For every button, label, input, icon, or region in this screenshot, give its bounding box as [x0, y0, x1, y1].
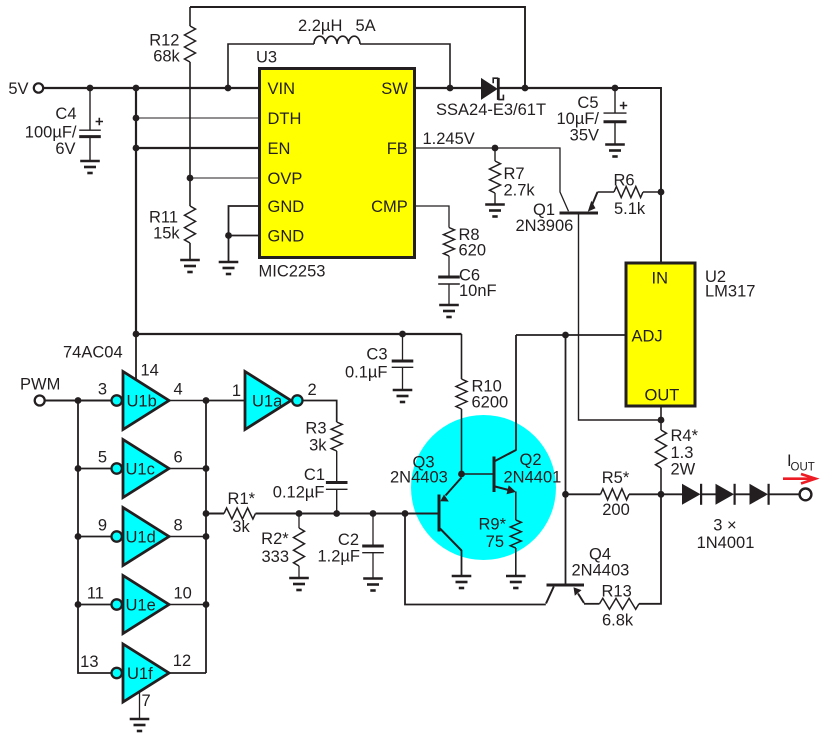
pin DTH: [268, 110, 302, 128]
node R6-IN column junction: [658, 189, 665, 196]
svg-text:R13: R13: [602, 583, 632, 601]
label R9 value: [478, 516, 506, 552]
label R12 value: [149, 32, 180, 66]
wire SW to diode: [415, 87, 482, 89]
svg-text:3 ×: 3 ×: [713, 517, 736, 535]
wire Q2 base: [462, 473, 493, 475]
svg-text:10nF: 10nF: [459, 282, 497, 300]
pin number 12: [173, 652, 191, 670]
svg-text:R7: R7: [504, 165, 525, 183]
svg-text:LM317: LM317: [705, 283, 755, 301]
capacitor C4: [79, 88, 103, 161]
wire D3-D4: [735, 493, 751, 495]
node R4-R5-diode junction: [658, 491, 665, 498]
svg-text:C1: C1: [304, 466, 325, 484]
ground below U3 GND pins: [219, 262, 239, 274]
wire U1e output: [169, 604, 206, 606]
wire OUT pin: [660, 406, 662, 420]
svg-text:2.7k: 2.7k: [504, 182, 536, 200]
inverter U1c: [112, 440, 170, 498]
pin VIN: [268, 80, 296, 98]
wire inverter output column: [205, 401, 207, 674]
inverter U1f: [112, 644, 170, 702]
capacitor C2: [362, 514, 384, 579]
svg-text:5A: 5A: [356, 17, 376, 35]
node DTH junction: [133, 115, 140, 122]
label C3 value: [345, 346, 388, 382]
resistor R5: [601, 489, 630, 500]
label C2 value: [317, 531, 360, 566]
inductor L1 2.2uH: [314, 36, 360, 44]
transistor Q2 2N4401: [494, 450, 516, 494]
label R10 value: [472, 378, 509, 412]
label C1 value: [273, 466, 325, 502]
node ADJ junction: [562, 332, 569, 339]
node PWM junction: [75, 397, 82, 404]
svg-text:6: 6: [174, 449, 183, 467]
wire Q2 collector: [515, 335, 517, 451]
wire 5V down-column to logic rail: [135, 88, 137, 334]
node output column R1 junction: [203, 510, 210, 517]
svg-text:2: 2: [308, 381, 317, 399]
label U1f: [127, 665, 153, 683]
wire U1a output: [302, 401, 336, 423]
label U2: [705, 268, 755, 301]
diode D1 SSA24-E3/61T: [481, 78, 503, 100]
svg-text:3k: 3k: [309, 437, 327, 455]
node OVP junction: [187, 175, 194, 182]
node ADJ-R5 junction: [562, 491, 569, 498]
wire to output terminal: [768, 493, 800, 495]
label Q4: [572, 546, 630, 580]
ground below R2: [289, 578, 309, 590]
svg-text:PWM: PWM: [20, 376, 60, 394]
wire R13 to output node: [639, 494, 661, 604]
highlight circle around Q2/Q3 pair: [411, 415, 556, 560]
node Q3-base junction: [402, 510, 409, 517]
svg-text:C3: C3: [366, 346, 387, 364]
node rail-pin14 junction: [133, 331, 140, 338]
resistor R7: [490, 148, 501, 205]
wire U1d input stub: [78, 536, 111, 538]
svg-text:200: 200: [602, 501, 630, 519]
capacitor C3: [392, 334, 414, 390]
pin OVP: [268, 170, 303, 188]
svg-text:FB: FB: [387, 140, 408, 158]
wire pin14 power: [135, 334, 137, 380]
node VIN-inductor junction: [225, 85, 232, 92]
node rail-C3 junction: [399, 331, 406, 338]
ground below C5: [605, 145, 625, 157]
svg-text:1.2µF: 1.2µF: [317, 548, 360, 566]
svg-text:6V: 6V: [55, 140, 75, 158]
wire R1 node line: [256, 513, 438, 515]
svg-text:11: 11: [87, 585, 104, 603]
svg-text:74AC04: 74AC04: [63, 344, 123, 362]
label MIC2253: [259, 263, 326, 281]
capacitor C1: [326, 451, 348, 514]
pin FB: [387, 140, 408, 158]
wire DTH pin: [136, 117, 260, 119]
svg-text:15k: 15k: [153, 225, 180, 243]
svg-text:2W: 2W: [671, 461, 696, 479]
node U1d input junction: [75, 533, 82, 540]
svg-text:2N4403: 2N4403: [572, 562, 630, 580]
label R6 value: [614, 172, 646, 219]
svg-text:U3: U3: [256, 49, 277, 67]
svg-text:R4*: R4*: [671, 427, 699, 445]
svg-text:2.2µH: 2.2µH: [298, 17, 342, 35]
node C2 junction: [370, 510, 377, 517]
wire pin7 ground: [139, 692, 141, 719]
resistor R12: [185, 7, 196, 178]
terminal PWM input: [35, 396, 45, 406]
label Q3: [390, 454, 448, 487]
svg-text:10: 10: [174, 585, 192, 603]
node U1e output junction: [203, 601, 210, 608]
svg-text:Q2: Q2: [520, 451, 542, 469]
svg-text:1N4001: 1N4001: [697, 534, 755, 552]
svg-text:SW: SW: [381, 80, 408, 98]
transistor Q3 2N4403: [439, 478, 462, 577]
transistor Q4 2N4403: [546, 585, 584, 604]
label R7 value: [504, 165, 536, 200]
node Q3-emitter R10 junction: [458, 471, 465, 478]
resistor R4: [656, 420, 667, 494]
svg-text:0.12µF: 0.12µF: [273, 484, 325, 502]
svg-text:1.245V: 1.245V: [423, 130, 475, 148]
pin number 8: [174, 517, 183, 535]
diode D4 1N4001: [750, 484, 769, 505]
node U1b output junction: [203, 397, 210, 404]
svg-text:14: 14: [141, 362, 159, 380]
svg-text:U1c: U1c: [126, 461, 155, 479]
pin OUT: [645, 387, 680, 405]
ground below R11: [180, 260, 200, 272]
svg-text:R2*: R2*: [261, 530, 289, 548]
svg-text:5.1k: 5.1k: [614, 200, 646, 218]
svg-text:2N4401: 2N4401: [504, 469, 562, 487]
label C4 value: [25, 105, 77, 158]
wire C5 to U2 IN: [615, 88, 661, 263]
node SW-inductor junction: [447, 85, 454, 92]
node U1d output junction: [203, 533, 210, 540]
wire R5 right: [629, 493, 661, 495]
svg-text:5V: 5V: [8, 80, 28, 98]
wire GND pin 1: [229, 206, 260, 236]
pin number 4: [174, 381, 183, 399]
svg-text:8: 8: [174, 517, 183, 535]
arrow IOUT direction: [783, 474, 816, 484]
node R2 junction: [296, 510, 303, 517]
label C5 value: [556, 94, 599, 145]
svg-text:GND: GND: [268, 228, 305, 246]
node 5V-EN column junction: [133, 85, 140, 92]
svg-text:4: 4: [174, 381, 183, 399]
wire 5V bus: [43, 87, 259, 89]
inverter U1d: [112, 508, 170, 566]
label R13 value: [602, 583, 634, 630]
ground below C4: [80, 161, 100, 173]
wire PWM input: [45, 400, 111, 402]
pin GND2: [268, 228, 305, 246]
capacitor C6: [438, 256, 460, 305]
regulator U2 LM317 body: [626, 263, 695, 406]
pin number 2: [308, 381, 317, 399]
svg-text:EN: EN: [268, 140, 291, 158]
svg-text:C4: C4: [55, 105, 76, 123]
svg-text:1.3: 1.3: [671, 444, 694, 462]
pin number 9: [98, 517, 107, 535]
svg-text:6.8k: 6.8k: [602, 612, 634, 630]
wire OVP pin: [190, 177, 260, 179]
label D1 part number: [436, 101, 546, 119]
wire U1e input stub: [78, 604, 111, 606]
label U1b: [127, 393, 157, 411]
ground below C6: [439, 305, 459, 317]
label R3 value: [305, 420, 327, 455]
pin number 3: [98, 381, 107, 399]
inverter U1e: [112, 576, 170, 634]
svg-text:U1b: U1b: [127, 393, 157, 411]
wire GND pin 2: [229, 236, 260, 263]
wire R1 left: [206, 513, 224, 515]
pin number 1: [232, 382, 241, 400]
pin ADJ: [632, 328, 663, 346]
wire logic power rail: [136, 333, 462, 335]
node 5V-C4 junction: [87, 85, 94, 92]
resistor R10: [456, 334, 467, 474]
label Q1: [516, 201, 574, 235]
svg-text:U1a: U1a: [252, 393, 283, 411]
svg-text:R9*: R9*: [478, 516, 506, 534]
wire inductor right lead: [360, 44, 450, 88]
wire U1f output: [169, 672, 206, 674]
resistor R11: [185, 178, 196, 260]
label R11 value: [149, 209, 180, 243]
svg-text:R1*: R1*: [228, 490, 256, 508]
label R1 value: [228, 490, 256, 536]
svg-text:2N4403: 2N4403: [390, 469, 448, 487]
svg-text:75: 75: [486, 533, 504, 551]
label U1a: [252, 393, 283, 411]
ground below R7: [485, 205, 505, 217]
label U1e: [126, 597, 156, 615]
node EN junction: [133, 145, 140, 152]
label PWM: [20, 376, 60, 394]
svg-text:IN: IN: [652, 270, 669, 288]
wire Q3 base to Q4 collector: [405, 514, 546, 605]
svg-text:68k: 68k: [153, 47, 180, 65]
resistor R9: [510, 492, 521, 577]
diode D3 1N4001: [716, 484, 735, 505]
terminal 5V input: [34, 83, 43, 92]
resistor R6: [614, 187, 661, 198]
node U1e input junction: [75, 601, 82, 608]
label U1d: [126, 529, 156, 547]
svg-text:SSA24-E3/61T: SSA24-E3/61T: [436, 101, 546, 119]
svg-text:VIN: VIN: [268, 80, 296, 98]
svg-text:DTH: DTH: [268, 110, 302, 128]
svg-text:3: 3: [98, 381, 107, 399]
svg-text:12: 12: [173, 652, 191, 670]
svg-text:R6: R6: [614, 172, 635, 190]
svg-text:R5*: R5*: [602, 469, 630, 487]
ground below C3: [393, 390, 413, 402]
wire U1b output: [169, 400, 206, 402]
label inductor value: [298, 17, 376, 35]
terminal IOUT output: [800, 489, 812, 501]
svg-text:100µF/: 100µF/: [25, 124, 77, 142]
pin number 11: [87, 585, 104, 603]
ground below Q3: [452, 576, 472, 588]
wire Q1 collector: [579, 213, 662, 420]
wire U1c input stub: [78, 468, 111, 470]
svg-text:5: 5: [98, 449, 107, 467]
transistor Q1 2N3906: [560, 192, 615, 213]
resistor R1: [224, 508, 256, 519]
svg-text:U1f: U1f: [127, 665, 153, 683]
svg-text:13: 13: [80, 653, 98, 671]
label R2 value: [261, 530, 289, 566]
node GND pins junction: [225, 232, 232, 239]
wire ADJ column to Q4 base: [565, 335, 567, 584]
wire D2-D3: [701, 493, 716, 495]
ground below U1f: [130, 719, 150, 731]
pin IN: [652, 270, 669, 288]
pin number 6: [174, 449, 183, 467]
pin number 13: [80, 653, 98, 671]
wire R5 left: [566, 493, 601, 495]
wire U1c output: [169, 468, 206, 470]
wire U1a input: [206, 400, 245, 402]
resistor R3: [331, 422, 342, 451]
ground below R9: [506, 576, 526, 588]
label 74AC04: [63, 344, 123, 362]
resistor R13: [600, 598, 640, 609]
wire to output diodes: [661, 493, 682, 495]
node C5 junction: [612, 85, 619, 92]
svg-text:2N3906: 2N3906: [516, 217, 574, 235]
svg-text:R3: R3: [305, 420, 326, 438]
capacitor C5: [604, 88, 628, 145]
label Q2: [504, 451, 562, 487]
wire EN pin: [136, 147, 260, 149]
label output diodes: [697, 517, 755, 553]
svg-text:620: 620: [459, 242, 487, 260]
pin GND1: [268, 198, 305, 216]
svg-text:333: 333: [261, 548, 289, 566]
wire FB to Q1 base: [495, 148, 569, 211]
svg-text:OUT: OUT: [645, 387, 680, 405]
svg-text:U1d: U1d: [126, 529, 156, 547]
ground below C2: [363, 579, 383, 591]
svg-text:3k: 3k: [232, 518, 250, 536]
label R8 value: [459, 226, 487, 260]
svg-text:MIC2253: MIC2253: [259, 263, 326, 281]
svg-text:1: 1: [232, 382, 241, 400]
wire CMP pin: [415, 206, 450, 228]
node FB junction: [492, 145, 499, 152]
inverter U1b: [112, 372, 170, 430]
label R4 value: [671, 427, 699, 479]
svg-text:0.1µF: 0.1µF: [345, 364, 388, 382]
pin number 5: [98, 449, 107, 467]
wire ADJ pin: [516, 334, 626, 336]
diode D2 1N4001: [682, 484, 701, 505]
wire Q4 emitter to R13: [584, 603, 600, 605]
node U1c input junction: [75, 465, 82, 472]
pin number 14: [141, 362, 159, 380]
wire FB pin: [415, 147, 496, 149]
resistor R8: [444, 228, 455, 257]
svg-text:OUT: OUT: [791, 462, 815, 474]
wire inductor left lead: [228, 44, 314, 88]
label U1c: [126, 461, 155, 479]
svg-text:OVP: OVP: [268, 170, 303, 188]
svg-text:U1e: U1e: [126, 597, 156, 615]
op-amp U3 MIC2253 body: [260, 69, 415, 258]
svg-text:ADJ: ADJ: [632, 328, 663, 346]
label FB voltage 1.245V: [423, 130, 475, 148]
pin number 7: [142, 692, 151, 710]
pin EN: [268, 140, 291, 158]
resistor R2: [294, 514, 305, 579]
pin SW: [381, 80, 408, 98]
svg-text:C2: C2: [338, 531, 359, 549]
svg-text:35V: 35V: [570, 127, 599, 145]
label 5V: [8, 80, 28, 98]
svg-text:CMP: CMP: [371, 198, 408, 216]
label U3: [256, 49, 277, 67]
inverter U1a: [245, 372, 302, 430]
svg-text:10µF/: 10µF/: [556, 110, 599, 128]
pin CMP: [371, 198, 408, 216]
svg-text:9: 9: [98, 517, 107, 535]
label C6 value: [459, 267, 497, 301]
node top-wire junction: [522, 85, 529, 92]
node OUT junction: [658, 417, 665, 424]
wire inverter input column: [78, 401, 111, 674]
svg-text:6200: 6200: [472, 394, 509, 412]
wire top feedback from SW to R12: [190, 7, 525, 88]
label IOUT: [787, 452, 815, 474]
wire diode to C5: [498, 87, 615, 89]
svg-text:GND: GND: [268, 198, 305, 216]
pin number 10: [174, 585, 192, 603]
node C1 junction: [333, 510, 340, 517]
node U1c output junction: [203, 465, 210, 472]
wire U1d output: [169, 536, 206, 538]
label R5 value: [602, 469, 630, 519]
svg-text:7: 7: [142, 692, 151, 710]
